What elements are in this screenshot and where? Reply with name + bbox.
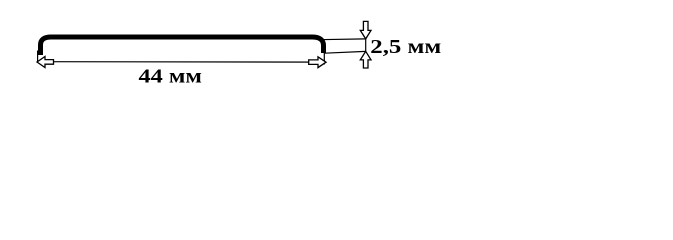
- extension line right: [323, 52, 325, 65]
- arrow up (open, pointing up): [360, 51, 371, 68]
- extension line left: [37, 51, 39, 63]
- arrow left (open, pointing left): [37, 57, 54, 68]
- svg-text:2,5 мм: 2,5 мм: [370, 36, 441, 58]
- arrow right (open, pointing right): [309, 57, 326, 68]
- profile cross-section (flat strip, thick stroke with curved ends): [41, 37, 324, 55]
- svg-text:44 мм: 44 мм: [139, 66, 203, 88]
- arrow down (open, pointing down): [360, 21, 371, 39]
- thickness vertical connector: [365, 39, 367, 52]
- dimension line 44mm: [37, 61, 326, 63]
- thickness extension line bottom: [325, 51, 366, 53]
- thickness extension line top: [318, 38, 366, 41]
